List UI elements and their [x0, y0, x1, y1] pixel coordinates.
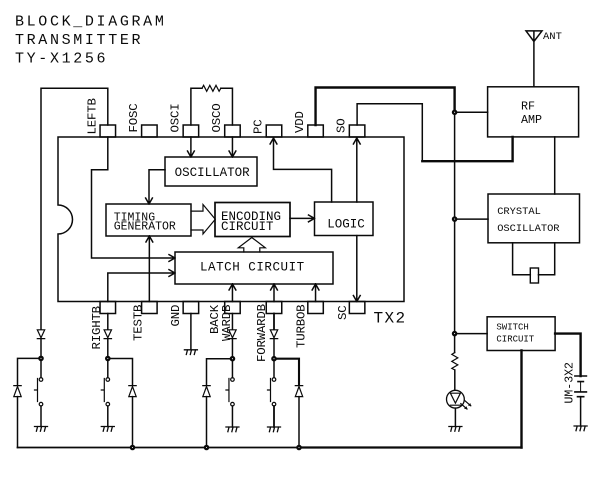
LED D9 [447, 390, 472, 409]
diode D1 (LEFTB key) [37, 330, 44, 357]
pin BACKWARDB [208, 302, 240, 342]
pin RIGHTB (bottom) [90, 302, 116, 350]
wire: key common bus [18, 447, 522, 449]
wire: TESTB pin to TIMING GENERATOR (arrow) [146, 236, 153, 302]
title text [15, 14, 166, 68]
ground (LED) [449, 427, 462, 432]
wire: OSCI pin to OSCILLATOR (arrow) [188, 137, 195, 157]
node B (junction at CRYSTAL OSCILLATOR) [452, 217, 457, 222]
block ENCODING CIRCUIT [215, 203, 290, 237]
svg-text:CRYSTAL: CRYSTAL [497, 206, 541, 218]
ground (S4) [268, 427, 281, 432]
block LATCH CIRCUIT [175, 252, 333, 284]
diode D5 (LEFTB column, to bus) [14, 386, 21, 448]
pin LEFTB (top) [86, 98, 116, 137]
svg-text:TRANSMITTER: TRANSMITTER [15, 32, 143, 49]
svg-text:FOSC: FOSC [127, 104, 141, 133]
svg-text:OSCI: OSCI [169, 104, 183, 133]
svg-text:CIRCUIT: CIRCUIT [496, 335, 534, 345]
switch S3 (BACKWARDB) [226, 361, 234, 427]
wire: LOGIC to PC pin (arrow) [270, 138, 332, 202]
wire: ENCODING CIRCUIT to LOGIC (arrow) [290, 215, 315, 222]
diode D2 (RIGHTB key) [104, 330, 111, 357]
wire: TURBOB pin to LATCH CIRCUIT (arrow) [312, 284, 319, 302]
pin SO [335, 119, 365, 137]
block TIMING GENERATOR [106, 204, 191, 236]
svg-text:GENERATOR: GENERATOR [114, 221, 176, 234]
node bus junction 2 [204, 445, 209, 450]
pin VDD [293, 111, 323, 137]
wire: OSCILLATOR to TIMING GENERATOR (arrow) [146, 170, 165, 204]
wire: FORWARDB pin to diode [273, 314, 275, 330]
svg-text:TY-X1256: TY-X1256 [15, 51, 108, 68]
svg-text:RIGHTB: RIGHTB [90, 306, 104, 349]
svg-text:TESTB: TESTB [132, 305, 146, 341]
wire: FORWARDB pin to LATCH CIRCUIT (arrow) [271, 284, 278, 302]
wire: node C to SWITCH CIRCUIT input [457, 333, 487, 335]
diode D3 (BACKWARDB key) [229, 330, 236, 357]
node FORWARDB key junction [272, 356, 277, 361]
bus arrow: TIMING GENERATOR to ENCODING CIRCUIT [191, 205, 215, 235]
ground (battery) [574, 426, 587, 431]
switch S1 (LEFTB) [35, 361, 43, 427]
wire: LOGIC to SC pin (arrow) [353, 236, 360, 302]
pin FORWARDB [255, 302, 282, 363]
ground (S1) [35, 427, 48, 432]
wire: thick segment to RF AMP bottom [422, 137, 512, 161]
svg-text:BLOCK_DIAGRAM: BLOCK_DIAGRAM [15, 14, 166, 31]
wire: RF AMP to CRYSTAL OSCILLATOR [554, 137, 556, 194]
node LEFTB key junction [39, 356, 44, 361]
wire: SO output route to RF AMP (thin then thick) [357, 104, 422, 162]
pin GND [169, 302, 199, 327]
wire: RIGHTB pin to diode [107, 314, 109, 330]
svg-text:SO: SO [335, 119, 349, 133]
node A (VDD junction at RF AMP) [452, 110, 457, 115]
pin PC [252, 120, 282, 137]
node C (junction at SWITCH CIRCUIT) [452, 331, 457, 336]
svg-text:PC: PC [252, 120, 266, 134]
svg-text:TX2: TX2 [374, 310, 407, 328]
wire: BACKWARDB pin to diode [231, 314, 233, 330]
wire: node B to CRYSTAL OSCILLATOR input [457, 218, 488, 220]
wire: BACKWARDB pin to LATCH CIRCUIT (arrow) [229, 284, 236, 302]
wire: LED to ground [454, 408, 456, 426]
svg-text:TURBOB: TURBOB [295, 305, 309, 348]
pin OSCO [210, 104, 240, 137]
svg-text:LOGIC: LOGIC [327, 218, 365, 232]
diode D8 (FORWARDB column, to bus) [295, 386, 302, 446]
node RIGHTB key junction [106, 356, 111, 361]
wire: node C down to resistor R2 [454, 336, 456, 353]
ground (GND pin) [184, 350, 197, 355]
svg-text:OSCO: OSCO [210, 104, 224, 133]
battery BT1 UM-3X2 [564, 362, 587, 404]
block SWITCH CIRCUIT [487, 317, 555, 351]
block RF AMP [488, 87, 579, 137]
diode D4 (FORWARDB key) [270, 330, 277, 357]
diode D6 (RIGHTB column, to bus) [129, 386, 136, 446]
svg-text:OSCILLATOR: OSCILLATOR [497, 223, 559, 235]
ground (S3) [226, 427, 239, 432]
svg-text:FORWARDB: FORWARDB [255, 304, 269, 362]
svg-text:AMP: AMP [521, 113, 542, 127]
crystal X1 legs [513, 243, 555, 275]
switch S2 (RIGHTB) [101, 361, 109, 427]
pin TURBOB [295, 302, 324, 349]
resistor R2 (LED series) [452, 353, 458, 371]
diode D7 (BACKWARDB column, to bus) [203, 386, 210, 446]
svg-text:OSCILLATOR: OSCILLATOR [175, 166, 251, 180]
block LOGIC [315, 202, 374, 236]
pin OSCI [169, 104, 199, 137]
wire: LEFTB junction to matrix diode [18, 358, 39, 385]
antenna ANT [526, 31, 562, 87]
ground (S2) [101, 427, 114, 432]
node BACKWARDB key junction [230, 356, 235, 361]
svg-text:CIRCUIT: CIRCUIT [221, 220, 274, 234]
switch S4 (FORWARDB) [268, 361, 276, 427]
node bus junction 3 [297, 445, 302, 450]
svg-text:LATCH CIRCUIT: LATCH CIRCUIT [200, 261, 305, 275]
block CRYSTAL OSCILLATOR [488, 194, 580, 243]
svg-text:LEFTB: LEFTB [86, 98, 100, 134]
wire: node A down to node B [454, 114, 456, 217]
wire: SWITCH CIRCUIT to battery (thick) [555, 334, 581, 376]
pin TESTB [132, 302, 158, 342]
crystal X1 [530, 268, 538, 283]
bus arrow: LATCH CIRCUIT to ENCODING CIRCUIT [238, 238, 265, 253]
wire: RIGHTB pin to LATCH CIRCUIT (arrow) [108, 270, 175, 302]
node bus junction 1 [130, 445, 135, 450]
wire: OSCO pin to OSCILLATOR (arrow) [229, 137, 236, 157]
wire: R2 to LED [454, 370, 456, 390]
svg-text:SC: SC [336, 306, 350, 320]
wire: BACKWARDB junction to matrix diode [207, 359, 231, 385]
block OSCILLATOR [165, 157, 257, 186]
svg-text:ANT: ANT [543, 31, 562, 43]
resistor R1 (between OSCI and OSCO) [202, 85, 221, 91]
wire: LEFTB pin to LATCH CIRCUIT (arrow) [92, 137, 176, 261]
wire: OSCI-OSCO resistor loop risers [191, 88, 233, 125]
wire: LEFTB top rail to key matrix [41, 88, 108, 328]
wire: LOGIC to SO pin (arrow) [353, 138, 360, 202]
svg-text:SWITCH: SWITCH [496, 323, 528, 333]
wire: node B down to node C [454, 221, 456, 331]
wire: battery to ground [580, 397, 582, 426]
wire: SWITCH CIRCUIT to key common bus (thick riser) [520, 351, 522, 448]
wire: VDD rail (thick) to node A [316, 88, 455, 126]
wire: GND pin to ground [190, 314, 192, 350]
wire: FORWARDB junction to matrix diode (thick) [276, 359, 299, 385]
svg-text:RF: RF [521, 100, 535, 114]
svg-text:VDD: VDD [293, 111, 307, 133]
wire: RIGHTB junction to matrix diode [110, 359, 133, 386]
label TX2 [374, 310, 407, 328]
pin SC [336, 302, 365, 321]
svg-text:UM-3X2: UM-3X2 [564, 362, 577, 404]
IC TX2 package outline with notch [58, 137, 404, 302]
svg-text:GND: GND [169, 305, 183, 327]
wire: node A to RF AMP input [457, 111, 488, 113]
pin FOSC [127, 104, 157, 137]
